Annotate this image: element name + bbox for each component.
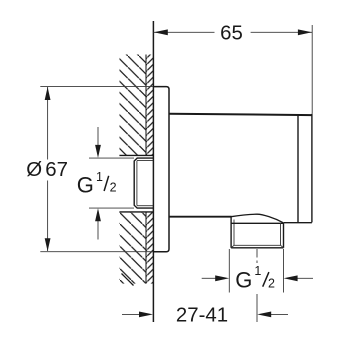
outlet nipple top face xyxy=(232,222,284,224)
dim d67 extension bottom xyxy=(40,251,153,253)
dim G12 bottom extension right xyxy=(283,249,285,293)
dim 65 arrow left xyxy=(154,29,168,35)
dim G12 left arrow up line xyxy=(97,221,99,240)
body bottom edge xyxy=(169,216,232,218)
dim d67 line lower segment xyxy=(47,181,49,252)
svg-text:G: G xyxy=(235,268,252,293)
dim G12 left arrow down line xyxy=(97,127,99,146)
dim G12 left tick bottom xyxy=(89,207,134,209)
outlet nipple outer right xyxy=(283,223,285,248)
flange escutcheon side view xyxy=(153,87,169,252)
inlet connector thread inner bottom xyxy=(137,205,153,207)
dim d67 line upper segment xyxy=(47,87,49,160)
wall hatch upper finish layer xyxy=(146,55,153,156)
outlet nipple thread inner right xyxy=(280,223,282,245)
dim G12 bottom arrow right line xyxy=(297,277,314,279)
dim 65 line left segment xyxy=(154,31,215,33)
dim G12 bottom text slash xyxy=(263,272,269,287)
outlet centerline dash a xyxy=(256,249,258,258)
body top edge xyxy=(169,114,312,115)
body right edge xyxy=(311,114,313,223)
elbow boss curve xyxy=(231,214,284,223)
dim G12 bottom arrow right head xyxy=(284,275,298,281)
wall layer boundary upper xyxy=(145,55,147,156)
outlet nipple bottom edge xyxy=(231,247,283,249)
dim G12 left arrow down head xyxy=(95,145,101,158)
svg-text:67: 67 xyxy=(45,159,68,181)
wall opening top edge xyxy=(119,154,153,156)
dim 65 line right segment xyxy=(251,31,312,33)
wall hatch upper core xyxy=(120,55,147,156)
wall hatch leftover stroke xyxy=(122,274,134,286)
inlet connector thread inner top xyxy=(137,160,153,162)
outlet centerline dash b xyxy=(256,261,258,264)
svg-text:65: 65 xyxy=(220,23,243,45)
body end bottom edge xyxy=(284,222,312,224)
dim 65 arrow right xyxy=(298,29,312,35)
outlet nipple chamfer left xyxy=(231,245,234,247)
inlet connector outer xyxy=(134,158,153,208)
dim G12 bottom arrow left line xyxy=(202,277,216,279)
wall hatch lower finish layer xyxy=(146,212,153,284)
svg-text:1: 1 xyxy=(96,170,103,184)
dim 2741 arrow right head xyxy=(257,312,271,318)
outlet nipple thread inner left xyxy=(233,220,235,246)
dim d67 extension top xyxy=(40,86,153,88)
svg-text:2: 2 xyxy=(110,181,117,195)
dim G12 bottom extension left xyxy=(228,249,230,293)
dim G12 bottom arrow left head xyxy=(215,275,229,281)
wall opening bottom edge xyxy=(119,211,153,213)
dim 65 extension right xyxy=(311,25,313,114)
dim G12 left text slash xyxy=(104,176,109,191)
body end step xyxy=(297,115,299,223)
svg-text:G: G xyxy=(77,172,94,197)
dim G12 left tick top xyxy=(89,157,134,159)
outlet nipple outer left xyxy=(230,217,232,248)
inlet connector thread inner left xyxy=(136,161,138,206)
wall face line xyxy=(152,21,154,322)
outlet nipple chamfer right xyxy=(281,245,284,247)
svg-text:1: 1 xyxy=(254,264,261,278)
dim G12 left arrow up head xyxy=(95,208,101,221)
svg-text:Ø: Ø xyxy=(26,159,42,181)
outlet centerline dash c xyxy=(256,294,258,322)
outlet nipple thread inner bottom xyxy=(234,244,281,246)
svg-text:2: 2 xyxy=(268,277,275,291)
dim 2741 arrow left line xyxy=(122,313,140,315)
svg-text:27-41: 27-41 xyxy=(176,305,228,327)
dim d67 arrow up xyxy=(45,87,51,100)
wall layer boundary lower xyxy=(145,212,147,284)
dim 2741 arrow left head xyxy=(139,312,153,318)
wall hatch lower core xyxy=(120,212,147,284)
dim 2741 arrow right line xyxy=(270,313,288,315)
dim d67 arrow down xyxy=(45,238,51,251)
